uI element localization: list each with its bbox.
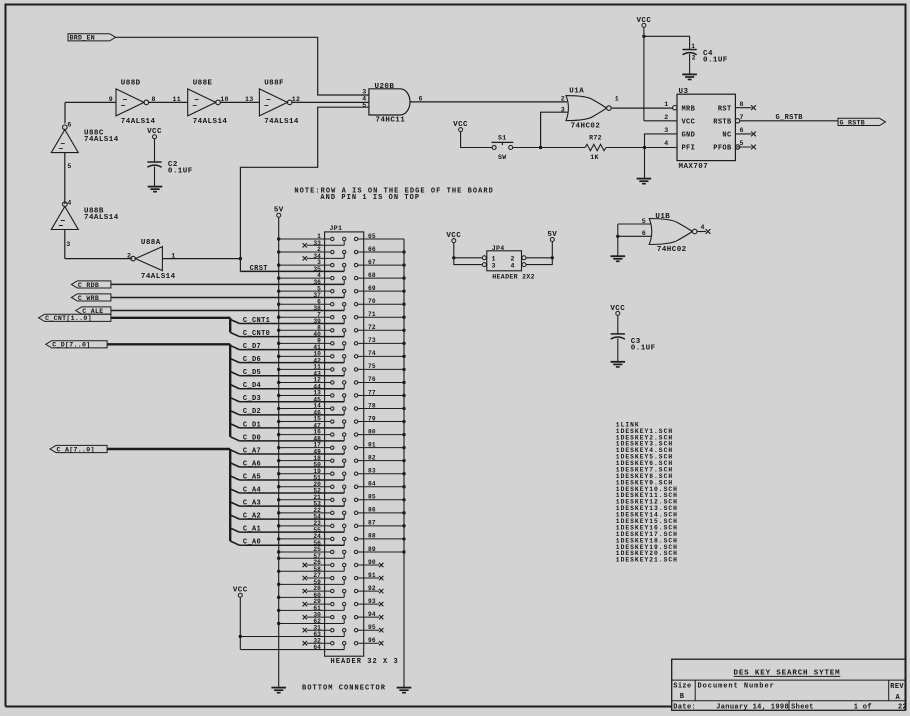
svg-text:C_D7: C_D7 [243, 343, 261, 351]
svg-text:MRB: MRB [682, 105, 696, 113]
svg-text:C_WRB: C_WRB [78, 295, 99, 302]
svg-text:2: 2 [692, 55, 696, 62]
svg-text:75: 75 [368, 363, 376, 370]
svg-text:2: 2 [664, 114, 668, 121]
svg-text:67: 67 [368, 259, 376, 266]
wire U1A out to MAX707 MRB [611, 107, 672, 109]
svg-text:74ALS14: 74ALS14 [84, 214, 119, 222]
net label C_A0 [243, 539, 261, 547]
net flag C_ALE [76, 307, 111, 315]
wire C_A7 branch to pin 49 [230, 450, 344, 454]
net label C_D6 [243, 356, 261, 364]
wire U20B out to U1A pin 2 [410, 101, 567, 103]
svg-text:C_A0: C_A0 [243, 539, 261, 547]
junction PFI / GND net [643, 146, 646, 149]
JP1 row 5 pins 5/37/69 [277, 285, 406, 299]
wire RSTB to G_RSTB flag [740, 120, 838, 122]
wire C_RDB to JP1 pin 36 [111, 283, 344, 285]
pin 2 label U1A [561, 96, 565, 103]
JP1 row 4 pins 4/36/68 [277, 272, 406, 286]
wire VCC to JP4 pin 1 [452, 256, 482, 259]
pin 6 label U1B [642, 230, 646, 237]
svg-text:0.1UF: 0.1UF [703, 57, 728, 65]
junction CRST node [239, 257, 242, 260]
svg-text:78: 78 [368, 402, 376, 409]
svg-text:U88D: U88D [121, 79, 141, 87]
junction VCC / C4 branch [642, 35, 645, 38]
svg-text:2: 2 [561, 96, 565, 103]
bus wire C_CNT [111, 318, 230, 333]
JP1 row 21 pins 21/53/85 [277, 494, 406, 508]
svg-text:REV: REV [890, 683, 904, 691]
svg-text:6: 6 [740, 127, 744, 134]
svg-text:0.1UF: 0.1UF [168, 168, 193, 176]
wire C_ALE to JP1 pin 38 [111, 310, 344, 312]
svg-text:80: 80 [368, 428, 376, 435]
svg-text:January 14, 1998: January 14, 1998 [716, 704, 789, 712]
wire VCC down to row 32 [239, 597, 241, 649]
svg-text:4: 4 [701, 224, 705, 231]
power VCC for JP4 [446, 232, 461, 243]
wire C_D7 branch to pin 41 [230, 345, 344, 349]
wire C3 to ground [617, 338, 619, 361]
JP1 row 16 pins 16/48/80 [277, 428, 406, 442]
ground below U1B inputs [611, 256, 626, 261]
net flag BRD_EN [68, 34, 116, 42]
svg-text:92: 92 [368, 585, 376, 592]
svg-text:RSTB: RSTB [713, 118, 732, 126]
svg-text:G_RSTB: G_RSTB [840, 119, 866, 126]
wire C_A3 branch to pin 53 [230, 502, 344, 506]
power VCC top [636, 17, 651, 28]
net label C_CNT0 [243, 330, 270, 338]
wire VCC down to MAX707 VCC pin [643, 27, 645, 120]
JP1 row 23 pins 23/55/87 [277, 520, 406, 534]
pin 6 label U88C [67, 121, 71, 128]
wire C_A6 branch to pin 50 [230, 463, 344, 467]
net label C_D7 [243, 343, 261, 351]
svg-text:88: 88 [368, 533, 376, 540]
svg-text:4: 4 [511, 262, 515, 269]
junction U1A pin3 / switch wire [539, 146, 542, 149]
svg-text:GND: GND [682, 132, 696, 140]
svg-text:U20B: U20B [375, 83, 395, 91]
wire right C bus vertical [403, 239, 405, 688]
power VCC for C3 [610, 305, 625, 316]
svg-text:C_D0: C_D0 [243, 434, 261, 442]
ground below C2 [148, 187, 163, 192]
svg-text:R72: R72 [589, 134, 602, 141]
svg-text:5: 5 [67, 163, 71, 170]
svg-text:C_A6: C_A6 [243, 460, 261, 468]
svg-text:89: 89 [368, 546, 376, 553]
svg-text:65: 65 [368, 233, 376, 240]
pin 1 label U88A [171, 252, 175, 259]
resistor R72 1K [585, 134, 606, 161]
svg-text:C_A2: C_A2 [243, 513, 261, 521]
pin 3 label U88B [66, 241, 70, 248]
ground below U3 [637, 179, 652, 184]
pin 8 label U88D [152, 96, 156, 103]
bus flag C_CNT[1..0] [39, 314, 111, 322]
JP1 row 7 pins 7/39/71 [277, 311, 406, 325]
wire C_D3 branch to pin 45 [230, 398, 344, 402]
wire U1B pin6 junction [616, 235, 652, 238]
label HEADER 32 X 3 [331, 658, 399, 666]
svg-text:83: 83 [368, 468, 376, 475]
net label CRST [250, 265, 268, 273]
svg-text:79: 79 [368, 415, 376, 422]
svg-text:69: 69 [368, 285, 376, 292]
wire VCC to C3 [617, 315, 619, 333]
svg-text:C_D2: C_D2 [243, 408, 261, 416]
svg-text:U1A: U1A [569, 87, 584, 95]
net label C_D5 [243, 369, 261, 377]
net label C_A2 [243, 513, 261, 521]
net label C_CNT1 [243, 317, 270, 325]
JP1 row 1 pins 1/33/65 [277, 233, 404, 248]
JP1 row 31 pins 31/63/95 [303, 624, 384, 638]
svg-text:74HC02: 74HC02 [657, 246, 687, 254]
pin 1 label U1A [615, 96, 619, 103]
svg-text:91: 91 [368, 572, 376, 579]
svg-text:C_D6: C_D6 [243, 356, 261, 364]
svg-text:85: 85 [368, 494, 376, 501]
wire VCC branch to C4 [644, 36, 690, 49]
JP1 row 8 pins 8/40/72 [277, 324, 406, 338]
svg-text:74ALS14: 74ALS14 [84, 136, 119, 144]
svg-text:11: 11 [172, 96, 181, 103]
svg-text:B: B [680, 693, 685, 701]
wire 5V to JP4 pin 2 [526, 256, 554, 259]
JP1 row 28 pins 28/60/92 [277, 585, 383, 599]
svg-text:64: 64 [313, 644, 321, 651]
svg-text:4: 4 [67, 200, 71, 207]
inverter U88B 74ALS14 [51, 202, 118, 230]
svg-text:NC: NC [722, 132, 731, 140]
svg-text:74ALS14: 74ALS14 [264, 118, 299, 126]
svg-text:C_A7: C_A7 [243, 447, 261, 455]
svg-text:PFI: PFI [682, 145, 696, 153]
JP1 row 32 pins 32/64/96 [303, 637, 384, 651]
svg-text:74HC11: 74HC11 [376, 117, 406, 125]
wire U88E out to U88F in [220, 101, 259, 103]
svg-text:76: 76 [368, 376, 376, 383]
wire BRD_EN horizontal [116, 36, 318, 38]
svg-text:93: 93 [368, 598, 376, 605]
inverter U88A 74ALS14 [131, 239, 176, 281]
svg-text:U88E: U88E [193, 79, 213, 87]
pin 12 label U88F [292, 96, 301, 103]
svg-text:84: 84 [368, 481, 376, 488]
AND gate U20B 74HC11 [369, 83, 410, 125]
svg-text:1: 1 [492, 255, 496, 262]
svg-text:C_D4: C_D4 [243, 382, 261, 390]
pin 4 label U20B [362, 96, 366, 103]
svg-text:0.1UF: 0.1UF [631, 344, 656, 352]
pin 9 label U88D [109, 96, 113, 103]
pin 2 label U88A [127, 252, 131, 259]
JP1 row 27 pins 27/59/91 [277, 572, 383, 586]
svg-text:1 of: 1 of [854, 704, 872, 712]
NOR gate U1B 74HC02 [649, 213, 697, 254]
pin 3 label U1A [561, 107, 565, 114]
note text [294, 187, 494, 202]
wire U88C in from U88B out [64, 153, 66, 204]
pin 10 label U88E [220, 96, 229, 103]
net label C_D4 [243, 382, 261, 390]
JP1 row 24 pins 24/56/88 [277, 533, 406, 547]
svg-text:C_D3: C_D3 [243, 395, 261, 403]
JP1 row 25 pins 25/57/89 [277, 546, 406, 560]
label BOTTOM CONNECTOR [302, 684, 386, 692]
svg-text:U88F: U88F [264, 79, 284, 87]
svg-text:3: 3 [492, 262, 496, 269]
svg-text:C_CNT[1..0]: C_CNT[1..0] [45, 315, 92, 322]
svg-text:74ALS14: 74ALS14 [141, 273, 176, 281]
wire U88B in from U88A out [65, 230, 132, 259]
svg-text:7: 7 [740, 114, 744, 121]
power VCC bottom left [233, 587, 248, 598]
svg-text:6: 6 [67, 121, 71, 128]
wire VCC to S1 [461, 132, 493, 148]
wire U20B pin5 to CRST node [240, 107, 369, 271]
svg-text:73: 73 [368, 337, 376, 344]
capacitor C3 0.1UF [611, 334, 656, 353]
wire VCC to JP4 pin 3 [454, 243, 483, 265]
JP1 row 18 pins 18/50/82 [277, 454, 406, 468]
pin 4 label U1B [701, 224, 705, 231]
net label C_A7 [243, 447, 261, 455]
wire 5V to JP4 pin 4 [526, 242, 552, 265]
wire C_A0 branch to pin 56 [230, 541, 344, 545]
sheet list text [616, 421, 678, 563]
JP1 row 9 pins 9/41/73 [277, 337, 406, 351]
net label C_A5 [243, 473, 261, 481]
ground below right bus [397, 688, 412, 693]
svg-text:BRD_EN: BRD_EN [70, 35, 96, 42]
wire U88A in to CRST node [162, 258, 240, 260]
no-connect PFOB pin 5 [735, 145, 756, 150]
power VCC for S1 [453, 121, 468, 132]
svg-text:C_A[7..0]: C_A[7..0] [57, 446, 95, 453]
svg-text:Sheet: Sheet [791, 704, 814, 712]
svg-text:C_CNT0: C_CNT0 [243, 330, 270, 338]
JP1 row 19 pins 19/51/83 [277, 468, 406, 482]
net label C_A3 [243, 500, 261, 508]
net flag C_RDB [71, 281, 111, 289]
net label C_A6 [243, 460, 261, 468]
svg-text:4: 4 [664, 140, 668, 147]
svg-text:22: 22 [898, 704, 907, 712]
svg-text:74ALS14: 74ALS14 [193, 118, 228, 126]
svg-text:1DESKEY21.SCH: 1DESKEY21.SCH [616, 557, 678, 564]
power VCC for C2 [147, 128, 162, 139]
JP1 row 11 pins 11/43/75 [277, 363, 406, 377]
wire U1A pin3 down to switch net [541, 112, 568, 147]
svg-text:JP1: JP1 [330, 225, 343, 232]
svg-text:Date:: Date: [673, 704, 696, 712]
pin 5 label U1B [642, 218, 646, 225]
wire C_D1 branch to pin 47 [230, 424, 344, 428]
net label C_D3 [243, 395, 261, 403]
svg-text:95: 95 [368, 624, 376, 631]
svg-text:JP4: JP4 [492, 245, 505, 252]
svg-text:71: 71 [368, 311, 376, 318]
pin 13 label U88F [245, 96, 254, 103]
pin 5 label U20B [362, 102, 366, 109]
wire C_CNT0 branch to pin 40 [230, 332, 344, 336]
wire VCC into U3 pin 2 [644, 120, 677, 122]
svg-text:VCC: VCC [682, 118, 696, 126]
svg-text:C_D1: C_D1 [243, 421, 261, 429]
wire C_A4 branch to pin 52 [230, 489, 344, 493]
wire S1 to R72 [513, 147, 585, 149]
svg-text:U88A: U88A [141, 239, 161, 247]
svg-text:A: A [896, 694, 901, 702]
bus wire C_A [107, 449, 230, 541]
wire C_D6 branch to pin 42 [230, 358, 344, 362]
svg-text:74HC02: 74HC02 [571, 123, 601, 131]
wire C_D2 branch to pin 46 [230, 411, 344, 415]
svg-text:90: 90 [368, 559, 376, 566]
JP1 row 30 pins 30/62/94 [277, 611, 383, 625]
capacitor C2 0.1UF [147, 161, 192, 175]
svg-text:3: 3 [66, 241, 70, 248]
net label C_D0 [243, 434, 261, 442]
switch S1 SW [492, 134, 514, 161]
wire VCC to C2 [154, 139, 156, 162]
svg-text:Size: Size [673, 683, 691, 691]
wire C_D5 branch to pin 43 [230, 372, 344, 376]
svg-text:13: 13 [245, 96, 254, 103]
svg-text:72: 72 [368, 324, 376, 331]
JP1 row 20 pins 20/52/84 [277, 481, 406, 495]
pin 8 label U3 [740, 101, 744, 108]
net label G_RSTB [776, 114, 804, 122]
wire C_D4 branch to pin 44 [230, 385, 344, 389]
wire R72 to MAX707 PFI [606, 147, 677, 149]
wire C4 to ground [689, 54, 691, 74]
svg-text:C_A3: C_A3 [243, 500, 261, 508]
wire VCC to JP1 pin 63 [239, 635, 345, 638]
svg-text:C_D5: C_D5 [243, 369, 261, 377]
ground below C4 [682, 74, 697, 79]
svg-text:96: 96 [368, 637, 376, 644]
capacitor C4 0.1UF [683, 43, 728, 65]
svg-text:74ALS14: 74ALS14 [121, 118, 156, 126]
net label C_D2 [243, 408, 261, 416]
svg-text:HEADER 32 X 3: HEADER 32 X 3 [331, 658, 399, 666]
svg-text:HEADER 2X2: HEADER 2X2 [492, 273, 535, 280]
ground below C3 [611, 362, 626, 367]
svg-text:2: 2 [511, 255, 515, 262]
net label C_A4 [243, 486, 261, 494]
wire BRD_EN to U20B pin 3 [318, 37, 369, 95]
svg-text:86: 86 [368, 507, 376, 514]
supervisor U3 MAX707 [673, 88, 740, 171]
svg-text:RST: RST [718, 105, 732, 113]
svg-text:C_A5: C_A5 [243, 473, 261, 481]
wire U88F out to U20B pin 4 [292, 101, 369, 103]
wire 5V bus vertical (row A bus) [278, 217, 280, 687]
pin 4 label U88B [67, 200, 71, 207]
wire U3 GND pin to ground [645, 134, 678, 179]
svg-text:C_CNT1: C_CNT1 [243, 317, 270, 325]
no-connect U1B output pin 4 [697, 229, 710, 234]
svg-text:82: 82 [368, 454, 376, 461]
svg-text:5: 5 [740, 140, 744, 147]
wire C_WRB to JP1 pin 37 [111, 296, 344, 298]
svg-text:C_D[7..0]: C_D[7..0] [52, 342, 90, 349]
JP1 row 15 pins 15/47/79 [277, 415, 406, 429]
JP1 row 22 pins 22/54/86 [277, 507, 406, 521]
svg-text:C_RDB: C_RDB [78, 282, 99, 289]
svg-text:MAX707: MAX707 [679, 163, 709, 171]
JP1 row 6 pins 6/38/70 [277, 298, 406, 312]
wire U88D out to U88E in [149, 101, 188, 103]
svg-text:3: 3 [362, 89, 366, 96]
svg-text:1: 1 [615, 96, 619, 103]
pin 11 label U88E [172, 96, 181, 103]
svg-text:74: 74 [368, 350, 376, 357]
no-connect RST pin 8 [735, 105, 756, 110]
wire VCC to JP1 pin 64 [240, 649, 344, 651]
inverter U88E 74ALS14 [188, 79, 228, 126]
net label C_D1 [243, 421, 261, 429]
svg-text:C_A1: C_A1 [243, 526, 261, 534]
svg-text:G_RSTB: G_RSTB [776, 114, 804, 122]
wire U1B pin5 to ground net [618, 224, 651, 256]
svg-text:70: 70 [368, 298, 376, 305]
wire C_D0 branch to pin 48 [230, 437, 344, 441]
JP1 row 29 pins 29/61/93 [277, 598, 383, 612]
pin 5 label U3 [740, 140, 744, 147]
title block [672, 659, 907, 711]
svg-text:1K: 1K [590, 154, 599, 161]
net flag G_RSTB [838, 118, 886, 126]
net label C_A1 [243, 526, 261, 534]
svg-text:BOTTOM CONNECTOR: BOTTOM CONNECTOR [302, 684, 386, 692]
JP1 row 14 pins 14/46/78 [277, 402, 406, 416]
NOR gate U1A 74HC02 [566, 87, 611, 130]
wire C_A5 branch to pin 51 [230, 476, 344, 480]
net flag C_WRB [71, 294, 111, 302]
inverter U88D 74ALS14 [116, 79, 156, 126]
pin 3 label U3 [664, 127, 668, 134]
JP1 row 10 pins 10/42/74 [277, 350, 406, 364]
svg-text:94: 94 [368, 611, 376, 618]
svg-text:PFOB: PFOB [713, 145, 732, 153]
JP1 row 26 pins 26/58/90 [277, 559, 383, 573]
svg-text:AND PIN 1 IS ON TOP: AND PIN 1 IS ON TOP [320, 194, 420, 202]
no-connect NC pin 6 [735, 132, 756, 137]
inverter U88C 74ALS14 [51, 125, 118, 153]
svg-text:8: 8 [740, 101, 744, 108]
pin 6 label U3 [740, 127, 744, 134]
svg-text:5: 5 [362, 102, 366, 109]
svg-text:SW: SW [498, 154, 507, 161]
inverter U88F 74ALS14 [259, 79, 299, 126]
pin 1 label U3 [664, 101, 668, 108]
JP1 row 17 pins 17/49/81 [277, 441, 406, 455]
JP1 row 2 pins 2/34/66 [277, 246, 406, 261]
svg-text:1: 1 [664, 101, 668, 108]
JP1 row 12 pins 12/44/76 [277, 376, 406, 390]
pin 2 label U3 [664, 114, 668, 121]
pin 4 label U3 [664, 140, 668, 147]
power 5V for JP4 [547, 231, 557, 242]
